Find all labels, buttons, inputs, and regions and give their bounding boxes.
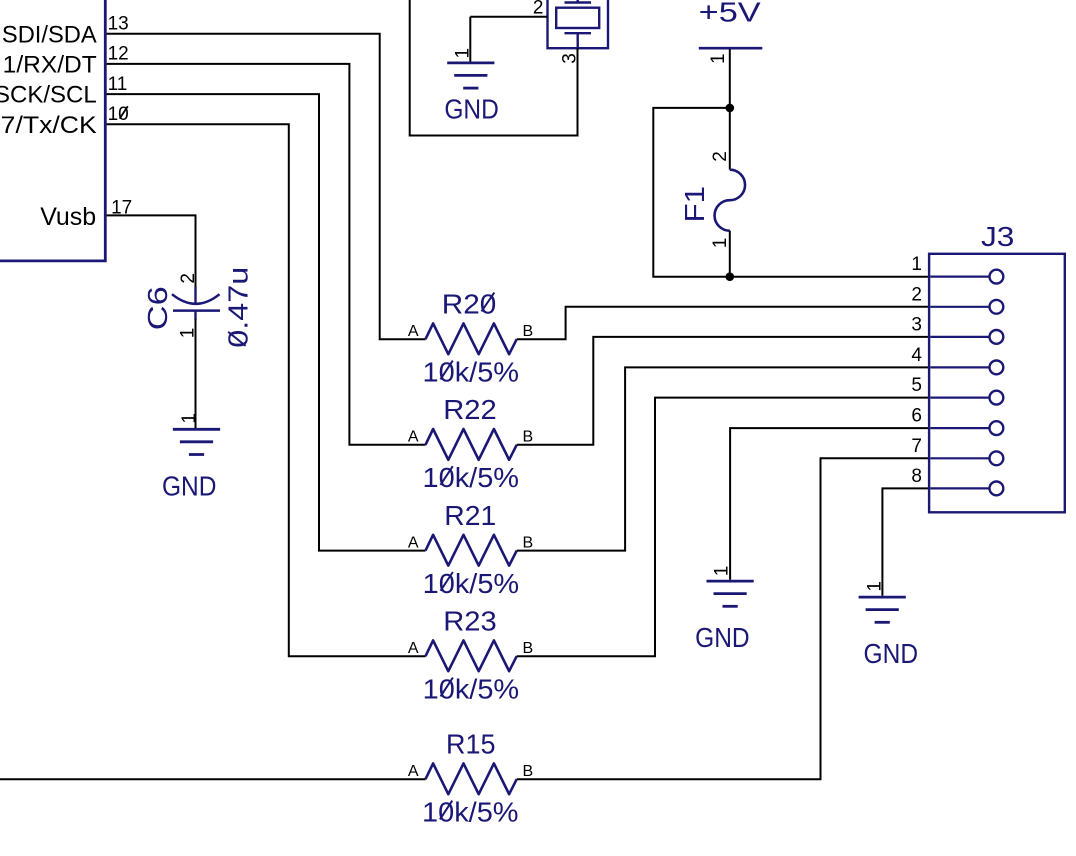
svg-text:2: 2 — [710, 151, 731, 162]
svg-text:R15: R15 — [446, 729, 496, 760]
svg-text:A: A — [408, 640, 419, 657]
svg-text:B: B — [523, 323, 534, 340]
svg-text:A: A — [408, 534, 419, 551]
svg-text:5: 5 — [911, 375, 922, 396]
svg-text:1/RX/DT: 1/RX/DT — [3, 52, 97, 79]
svg-text:GND: GND — [162, 471, 217, 502]
svg-text:12: 12 — [108, 44, 129, 65]
svg-text:13: 13 — [108, 13, 129, 34]
svg-text:17: 17 — [111, 198, 132, 219]
svg-text:1: 1 — [708, 53, 729, 64]
svg-text:B: B — [523, 534, 534, 551]
svg-text:GND: GND — [864, 638, 919, 669]
svg-text:1: 1 — [911, 254, 922, 275]
svg-text:3: 3 — [559, 53, 580, 64]
svg-text:GND: GND — [695, 622, 750, 653]
svg-text:R22: R22 — [443, 394, 497, 425]
svg-text:2: 2 — [178, 273, 199, 284]
svg-text:10k/5%: 10k/5% — [423, 462, 520, 493]
svg-text:F1: F1 — [679, 186, 710, 223]
svg-text:10k/5%: 10k/5% — [422, 797, 519, 828]
svg-text:3: 3 — [911, 314, 922, 335]
svg-text:R23: R23 — [443, 606, 497, 637]
svg-text:+5V: +5V — [699, 0, 761, 28]
svg-text:SCK/SCL: SCK/SCL — [0, 82, 97, 109]
svg-text:1: 1 — [178, 328, 199, 339]
svg-text:GND: GND — [444, 93, 499, 124]
svg-text:4: 4 — [911, 345, 922, 366]
svg-text:7/Tx/CK: 7/Tx/CK — [1, 112, 97, 139]
svg-text:0.47u: 0.47u — [223, 267, 254, 348]
svg-text:1: 1 — [865, 581, 886, 592]
svg-text:10k/5%: 10k/5% — [423, 568, 520, 599]
svg-text:7: 7 — [911, 436, 922, 457]
svg-text:11: 11 — [108, 74, 128, 95]
svg-text:A: A — [408, 763, 419, 780]
svg-text:1: 1 — [179, 413, 200, 424]
svg-text:1: 1 — [712, 566, 733, 577]
svg-text:6: 6 — [911, 406, 922, 427]
svg-text:C6: C6 — [142, 286, 173, 330]
svg-text:10k/5%: 10k/5% — [423, 357, 520, 388]
svg-text:B: B — [523, 429, 534, 446]
svg-text:R20: R20 — [442, 289, 497, 320]
svg-text:A: A — [408, 429, 419, 446]
svg-text:10: 10 — [108, 104, 129, 125]
svg-text:SDI/SDA: SDI/SDA — [2, 21, 97, 48]
svg-text:2: 2 — [911, 284, 922, 305]
svg-text:1: 1 — [710, 238, 731, 249]
svg-text:10k/5%: 10k/5% — [423, 674, 520, 705]
svg-text:B: B — [523, 763, 534, 780]
svg-text:A: A — [408, 323, 419, 340]
svg-text:R21: R21 — [444, 500, 496, 531]
svg-text:8: 8 — [911, 466, 922, 487]
svg-text:1: 1 — [453, 48, 474, 59]
svg-text:Vusb: Vusb — [40, 203, 96, 231]
svg-text:2: 2 — [533, 0, 544, 19]
svg-text:B: B — [523, 640, 534, 657]
svg-text:J3: J3 — [981, 221, 1014, 252]
